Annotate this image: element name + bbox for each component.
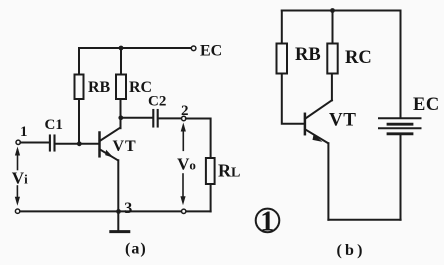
svg-text:Vi: Vi	[12, 168, 28, 187]
junction dot node 3	[116, 209, 121, 214]
svg-text:C1: C1	[45, 117, 63, 133]
wire: RB(b) top lead	[281, 11, 283, 44]
svg-text:RB: RB	[295, 45, 321, 65]
capacitor C1	[50, 136, 55, 151]
wire: circuit (b) bottom rail	[328, 219, 400, 221]
battery EC: long plate 1	[379, 117, 421, 119]
transistor VT (a): emitter stroke with arrow	[100, 149, 118, 160]
wire: C2 to node 2	[159, 117, 182, 119]
terminal node 1 (open circle)	[16, 140, 20, 144]
resistor RB (a)	[75, 75, 84, 100]
wire: RC bottom lead / collector column (a)	[120, 99, 122, 128]
Vi upper arrow (points up)	[17, 150, 19, 170]
resistor RC (a)	[116, 75, 126, 100]
wire: emitter column (b)	[327, 143, 329, 220]
junction dot RB/base wire	[77, 141, 82, 146]
transistor VT (b): collector stroke	[305, 100, 332, 118]
wire: emitter column down to ground (a)	[117, 160, 119, 229]
transistor VT (a): collector stroke	[100, 128, 120, 141]
wire: node 2 to RL top	[186, 119, 211, 159]
svg-text:(a): (a)	[125, 240, 147, 257]
transistor VT (b): base bar	[304, 114, 307, 134]
battery EC: short plate 2	[388, 132, 412, 135]
resistor RL	[206, 158, 215, 184]
wire: RC top lead (a)	[120, 48, 122, 75]
wire: battery bottom lead (b)	[400, 135, 402, 220]
capacitor C2	[153, 110, 157, 127]
resistor RB (b)	[277, 44, 288, 74]
svg-text:3: 3	[124, 200, 132, 217]
wire: RC(b) top lead	[332, 11, 334, 44]
svg-text:EC: EC	[200, 43, 222, 60]
wire: RB(b) bottom lead and base wire	[282, 74, 304, 124]
junction dot RC/top rail	[119, 46, 124, 51]
junction dot RC(b)/top rail	[330, 8, 335, 13]
node 2 terminal (open circle)	[182, 116, 186, 120]
battery EC: short plate 1	[388, 123, 412, 126]
svg-text:1: 1	[260, 207, 274, 238]
svg-text:(b): (b)	[337, 242, 366, 259]
wire: RB top lead (a)	[78, 48, 80, 75]
svg-text:VT: VT	[329, 110, 356, 131]
svg-text:VT: VT	[113, 138, 137, 155]
wire: node 1 to C1	[20, 142, 48, 144]
svg-text:Vo: Vo	[177, 154, 196, 173]
svg-text:RC: RC	[345, 48, 372, 68]
wire: circuit (a) top supply rail	[79, 47, 191, 49]
resistor RC (b)	[327, 44, 337, 74]
wire: collector to C2	[121, 117, 152, 119]
ground symbol	[111, 230, 129, 233]
figure number circle 1	[256, 209, 280, 233]
wire: circuit (a) bottom rail	[20, 210, 210, 212]
wire: battery top lead (b)	[400, 11, 402, 118]
svg-text:EC: EC	[413, 95, 440, 115]
junction dot collector/C2 wire	[118, 115, 123, 120]
Vo upper arrow (points up)	[182, 126, 184, 150]
svg-text:1: 1	[20, 124, 28, 140]
terminal bottom of Vo (open circle)	[182, 209, 186, 213]
wire: RL bottom lead	[210, 184, 212, 211]
transistor VT (b): emitter stroke with arrow	[305, 129, 328, 143]
Vo lower arrow (points down)	[182, 174, 184, 202]
Vi lower arrow (points down)	[16, 186, 18, 202]
wire: circuit (b) top rail	[282, 10, 401, 12]
svg-text:2: 2	[181, 103, 189, 119]
svg-text:RB: RB	[88, 79, 111, 96]
battery EC: long plate 2	[379, 127, 421, 129]
wire: C1 to transistor base	[56, 143, 99, 145]
svg-text:C2: C2	[148, 94, 166, 110]
wire: RC(b) bottom lead / collector column	[331, 74, 333, 101]
wire: RB bottom lead (a)	[78, 99, 80, 144]
terminal EC of circuit (a) (open circle)	[191, 46, 196, 51]
terminal bottom-left of Vi (open circle)	[15, 209, 19, 213]
transistor VT (a): base bar	[98, 133, 101, 157]
